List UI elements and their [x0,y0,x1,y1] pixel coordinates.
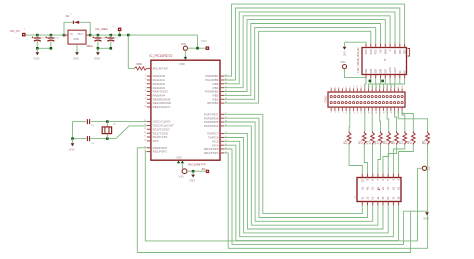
pic pin RC1/T1OSI [147,132,151,134]
pic pin OSC1/CLKIN [147,121,151,123]
svg-text:17: 17 [391,196,395,200]
pic pin PGC/RB6 [220,79,224,81]
connector bottom pin stub 13 [379,107,381,111]
svg-text:VDD: VDD [201,39,207,43]
connector pin circle top 1 [334,96,336,98]
wire crystal left vertical [72,122,74,139]
svg-text:GND: GND [69,147,75,151]
svg-text:7: 7 [145,94,146,96]
svg-text:DB7: DB7 [384,68,387,73]
wire RD3 bottom bus [224,149,403,244]
junction crystal bottom [106,137,109,140]
LCD top pin 2 [370,44,372,48]
svg-text:VSS: VSS [179,176,184,179]
wire RC5 bottom bus [224,141,393,236]
svg-text:PIC16F877P: PIC16F877P [188,162,205,166]
connector top pin stub 10 [368,88,370,92]
wire DC_IN to regulator [26,34,64,36]
supply circle VSS [182,169,187,174]
LCD top pin 6 [389,44,391,48]
svg-text:GND: GND [73,56,79,60]
svg-text:DB1: DB1 [399,49,402,54]
svg-text:D1: D1 [66,14,70,18]
svg-text:MCLR/THV: MCLR/THV [153,67,168,71]
wire connector to R7 [402,111,405,132]
pad DC_IN [22,33,26,37]
svg-text:14: 14 [376,196,380,200]
wire R8 to display pin [399,145,414,174]
svg-text:R8: R8 [407,140,411,144]
pad VDD [206,46,210,50]
svg-text:100n: 100n [55,38,61,40]
wire RC6 bottom bus [224,138,388,233]
pic pin TX/RC6 [220,137,224,139]
wire RB7 to LCD [224,4,405,76]
svg-text:R3: R3 [366,140,370,144]
resistor R7 [403,132,407,145]
pic pin RA2/AN2 [147,83,151,85]
svg-text:B1: B1 [366,186,370,190]
wire RD0 long bus [137,148,410,253]
svg-text:RE2/CS/AN7: RE2/CS/AN7 [153,105,171,109]
wire connector to R6 [395,111,397,132]
ground below pic [192,171,194,174]
wire regulator to VDD corner [90,34,197,36]
pic pin RC5 [220,140,224,142]
svg-text:R9: R9 [421,140,425,144]
supply symbol VDD near pic [183,46,187,50]
display top pin 7 [392,174,394,178]
pic pin PSP5/RD5 [220,121,224,123]
wire display gnd [404,210,428,212]
wire RD4 bottom bus [224,126,378,225]
svg-text:RD1/PSP1: RD1/PSP1 [153,150,168,154]
resistor R2 [363,132,367,145]
svg-text:H1: H1 [397,186,401,190]
display top pin 5 [382,174,384,178]
wire RD1 long bus [145,152,417,241]
junction DC_REG [118,34,121,37]
connector bottom pin stub 1 [334,107,336,111]
junction crystal gnd [71,137,74,140]
svg-text:IC_PIC16F8722: IC_PIC16F8722 [150,54,173,58]
pic pin RE1/WR/AN6 [147,102,151,104]
wire DC_REG pad stem [119,31,121,35]
wire connector to R9 [398,111,427,132]
wire R6 to display pin [388,145,396,174]
junction C3 bottom [97,47,100,50]
pic pin OSC2/CLKOUT [147,125,151,127]
svg-text:13: 13 [371,196,375,200]
resistor R9 [426,132,430,145]
pic pin PSP4/RD4 [220,125,224,127]
wire connector to R5 [387,111,389,132]
display bottom pin 13 [382,202,384,206]
svg-text:*: * [113,26,114,29]
svg-text:10: 10 [360,179,364,183]
resistor R1 [347,132,351,145]
connector top pin stub 3 [341,88,343,92]
svg-text:5: 5 [145,86,146,88]
pic pin PSP7/RD7 [220,113,224,115]
connector pin circle top 6 [353,96,355,98]
junction VSS gnd [192,170,195,173]
svg-text:DC_IN: DC_IN [10,29,19,33]
wire RB1 to LCD [224,27,376,99]
junction VDD [196,47,199,50]
svg-text:F1: F1 [386,186,390,190]
connector bottom pin stub 18 [397,107,399,111]
junction C2 bottom [50,47,53,50]
pic pin PGD/RB7 [220,75,224,77]
display top pin 3 [372,174,374,178]
svg-text:DB5: DB5 [375,68,378,73]
svg-text:*: * [71,14,72,17]
wire R7 to display pin [393,145,404,174]
LCD bottom pin 11 [380,75,382,79]
connector bottom pin stub 4 [345,107,347,111]
connector top pin stub 12 [375,88,377,92]
connector top pin stub 6 [353,88,355,92]
connector bottom pin stub 11 [371,107,373,111]
connector bottom pin stub 9 [364,107,366,111]
wire RD5 bottom bus [224,122,373,221]
connector top pin stub 2 [338,88,340,92]
LCD bottom pin 12 [384,75,386,79]
connector top pin stub 1 [334,88,336,92]
wire R2 to display pin [364,145,367,174]
ground symbol near LCD [345,42,367,44]
supply symbol VDD near LCD [342,65,346,69]
svg-text:RS: RS [380,49,383,53]
svg-text:GND: GND [33,56,39,60]
svg-text:R4: R4 [374,140,378,144]
svg-text:LCD_TUXGR_16X2_R2: LCD_TUXGR_16X2_R2 [358,47,360,72]
resistor R5 [387,132,391,145]
ground below C3 [97,48,99,52]
LCD top pin 4 [380,44,382,48]
LCD top pin 3 [375,44,377,48]
connector pin circle top 4 [345,96,347,98]
svg-text:A1: A1 [360,186,364,190]
svg-text:3: 3 [145,79,146,81]
svg-text:RD2/PSP2: RD2/PSP2 [204,151,219,155]
pic pin RA3/AN3 [147,87,151,89]
connector pin circle top 3 [341,96,343,98]
wire VDD to pic pin [184,50,186,57]
pic pin RA5/AN4 [147,94,151,96]
wire RB2 to LCD [224,24,380,96]
svg-text:11: 11 [360,196,364,199]
connector bottom pin stub 3 [341,107,343,111]
resistor R4 [379,132,383,145]
connector pin circle top 9 [364,96,366,98]
junction below LCD 2 [381,80,384,83]
junction C1 bottom [36,47,39,50]
pic pin RE2/CS/AN7 [147,106,151,108]
pad DC_REG [118,28,122,32]
pic pin RC0/T1OSO [147,128,151,130]
svg-text:17: 17 [144,136,146,138]
display bottom pin 11 [372,202,374,206]
display bottom pin 12 [377,202,379,206]
svg-text:R5: R5 [382,140,386,144]
wire VDD rail display [418,167,423,169]
pic pin MCLR/THV [147,67,151,69]
wire VSS to gnd cluster [181,163,183,169]
connector pin circle top 12 [375,96,377,98]
connector pin circle top 11 [371,96,373,98]
LCD module LCD1 outline [362,48,407,75]
connector pin circle top 18 [397,96,399,98]
svg-text:GND: GND [189,179,195,183]
capacitor C1 [36,35,38,38]
pic pin RC2/CCP1 [147,136,151,138]
LCD top pin 5 [384,44,386,48]
svg-text:9: 9 [145,102,146,104]
junction C4 top [110,34,113,37]
svg-text:D1: D1 [376,186,380,190]
connector top pin stub 18 [397,88,399,92]
regulator output pin [86,34,90,36]
display top pin 1 [361,174,363,178]
svg-text:R6: R6 [390,140,394,144]
connector pin circle top 10 [367,96,369,98]
wire connector to R3 [371,111,373,132]
connector pin circle top 13 [379,96,381,98]
connector bottom pin stub 17 [394,107,396,111]
svg-text:6: 6 [145,90,146,92]
wire RD7 bottom bus [224,114,362,213]
wire C3-C4 bottom [98,47,111,49]
wire RC7 bottom bus [224,134,383,229]
svg-text:R7: R7 [398,140,402,144]
svg-text:OUT: OUT [78,33,84,36]
connector pin circle top 19 [401,96,403,98]
connector pin circle top 7 [356,96,358,98]
pic pin RB1 [220,98,224,100]
svg-text:4: 4 [145,82,146,84]
LCD bottom pin 10 [375,75,377,79]
wire C1-C2 bottom [37,47,51,49]
regulator ground pin [76,44,78,52]
wire RB4 to LCD [224,16,390,88]
junction crystal top [106,120,109,123]
display top pin 2 [367,174,369,178]
ground near display [425,212,429,215]
LCD bottom pin 13 [389,75,391,79]
junction C4 bottom [110,47,113,50]
svg-text:VDD: VDD [370,49,373,54]
LCD bottom pin 9 [370,75,372,79]
junction below LCD 1 [369,80,372,83]
svg-text:VSS: VSS [177,155,183,159]
wire connector to R1 [348,111,351,132]
capacitor C2 [50,35,52,38]
svg-text:PSP4/RD4: PSP4/RD4 [204,124,219,128]
display bottom pin 9 [361,202,363,206]
svg-text:VDD: VDD [340,60,346,64]
connector bottom pin stub 14 [382,107,384,111]
wire MCLR net [128,35,134,68]
wire R4 to display pin [378,145,381,174]
connector pin circle top 0 [330,96,332,98]
LCD bottom pin 14 [394,75,396,79]
junction C3 top [97,34,100,37]
resistor R3 [371,132,375,145]
svg-text:8: 8 [145,98,146,100]
svg-text:16: 16 [144,132,146,134]
display top pin 8 [398,174,400,178]
connector bottom pin stub 6 [353,107,355,111]
connector top pin stub 9 [364,88,366,92]
svg-text:LEDK: LEDK [394,67,397,74]
LCD center mark [384,59,385,60]
wire D1 loop right [79,22,90,35]
LCD bottom pin 16 [404,75,406,79]
pic pin RD2/PSP2 [220,152,224,154]
svg-text:RMC: RMC [137,63,143,66]
display LED1 outline [357,178,401,202]
connector top pin stub 4 [345,88,347,92]
ground below crystal caps [72,139,74,144]
svg-text:DB6: DB6 [380,68,383,73]
pic pin RB4 [220,87,224,89]
LCD right bracket [408,49,410,57]
svg-text:IN: IN [70,33,73,36]
pic pin RD3/PSP3 [220,148,224,150]
wire R3 to display pin [372,145,374,174]
svg-text:DB0: DB0 [394,49,397,54]
connector bottom pin stub 2 [338,107,340,111]
wire VDD circle to pad [188,47,206,49]
op-amp region: none; IC U1 PIC16F877 outline [151,60,220,160]
connector bottom pin stub 12 [375,107,377,111]
connector bottom pin stub 5 [349,107,351,111]
pic VDD pin top [184,57,186,60]
junction C2 top [50,34,53,37]
display bottom pin 16 [398,202,400,206]
LCD top pin 7 [394,44,396,48]
wire VDD corner down [197,35,199,48]
capacitor C3 [97,35,99,38]
wire RB0 to LCD [224,31,371,103]
connector top pin stub 15 [386,88,388,92]
connector pin circle top 14 [382,96,384,98]
pic pin PGM/RB3 [220,91,224,93]
LCD top pin 1 [365,44,367,48]
svg-text:16: 16 [386,196,390,200]
resistor RMC horizontal [134,67,147,70]
svg-text:DB3: DB3 [365,68,368,73]
wire RC4 bottom bus [224,145,399,240]
connector pin circle top 5 [349,96,351,98]
LCD bottom pin 15 [399,75,401,79]
wire R1 to display pin [349,145,362,174]
connector top pin stub 19 [401,88,403,92]
connector top pin stub 0 [330,88,332,92]
svg-text:GND: GND [423,216,429,220]
svg-text:15: 15 [144,128,146,130]
svg-text:DB4: DB4 [370,68,373,73]
display top pin 4 [377,174,379,178]
svg-text:VEE: VEE [375,49,378,54]
connector bottom pin stub 0 [330,107,332,111]
diode D1 [72,21,74,24]
svg-text:C1: C1 [371,186,375,190]
svg-text:LEDA: LEDA [389,67,392,74]
display top pin 6 [387,174,389,178]
wire R5 to display pin [383,145,389,174]
svg-text:GND: GND [94,56,100,60]
connector bottom pin stub 8 [360,107,362,111]
svg-text:2: 2 [145,75,146,77]
svg-text:GND: GND [342,51,344,56]
svg-text:INT/RB0: INT/RB0 [207,101,219,105]
pic pin INT/RB0 [220,102,224,104]
svg-text:NC: NC [399,70,402,74]
wire RB5 to LCD [224,12,395,84]
svg-text:DC_REG: DC_REG [96,27,109,31]
svg-text:10: 10 [144,106,146,108]
svg-text:E1: E1 [381,186,385,190]
svg-text:CON1: CON1 [325,96,328,103]
wire OSC2 net [73,138,87,140]
pic VSS pins bottom [178,160,180,163]
pic pin RX/RC7 [220,133,224,135]
capacitor C5 plates [86,119,88,124]
connector top pin stub 13 [379,88,381,92]
supply symbol VDD near display [422,166,426,170]
pic pin RE0/RD/AN5 [147,98,151,100]
svg-text:VSS: VSS [365,49,368,54]
display bottom pin 15 [392,202,394,206]
wire RD6 bottom bus [224,118,367,217]
wire VDD to LCD pin column [345,69,367,78]
junction C1 top [36,34,39,37]
junction MCLR branch [127,34,130,37]
pic pin RB5 [220,83,224,85]
pic pin PSP6/RD6 [220,117,224,119]
ground below C1 [36,48,38,52]
connector bottom pin stub 10 [368,107,370,111]
pic pin RD0/PSP0 [147,147,151,149]
resistor R8 [412,132,416,145]
crystal Q1 [106,122,108,127]
svg-text:15: 15 [381,196,385,200]
connector pin circle top 2 [338,96,340,98]
display bottom pin 14 [387,202,389,206]
connector top pin stub 7 [356,88,358,92]
LCD top pin 8 [399,44,401,48]
pic pin RD1/PSP1 [147,151,151,153]
svg-text:JP1: JP1 [201,168,206,171]
junction D1 left [63,34,66,37]
pic pin RC4 [220,144,224,146]
wire connector to R4 [379,111,382,132]
capacitor C6 plates [86,136,88,141]
wire RB6 to LCD [224,8,400,80]
resistor R6 [395,132,399,145]
svg-text:REG: REG [87,44,94,48]
connector bottom pin stub 15 [386,107,388,111]
svg-text:*: * [24,29,25,32]
svg-text:VDD: VDD [179,62,185,66]
svg-text:12: 12 [366,196,370,200]
wire OSC1 net [73,121,87,123]
wire RD2 bottom bus [224,145,428,249]
wire connector to R2 [364,111,366,132]
